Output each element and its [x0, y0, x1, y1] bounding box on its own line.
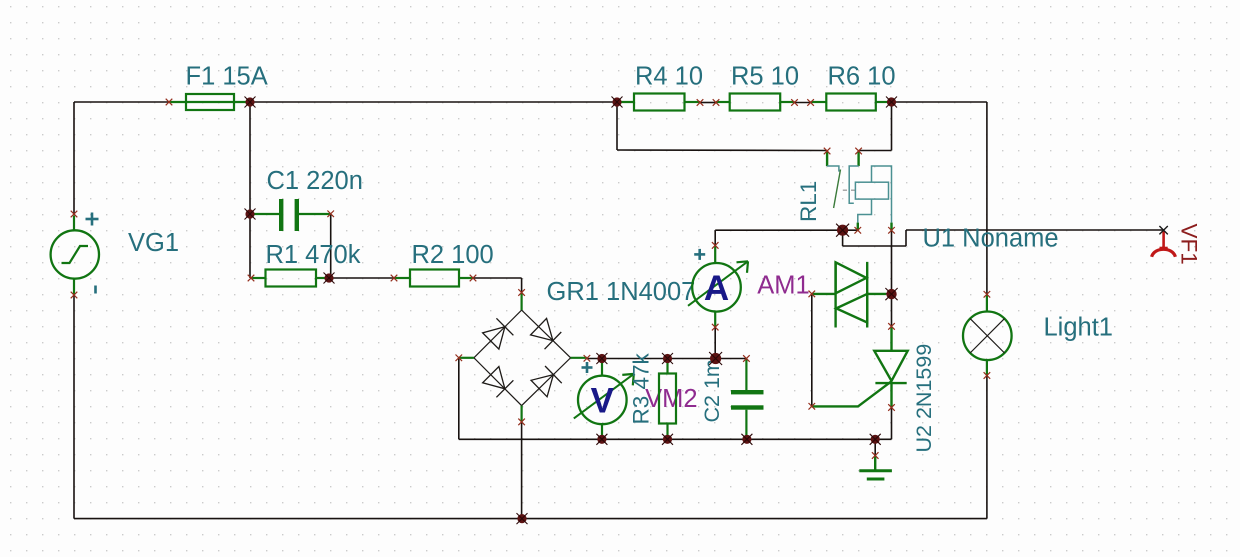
relay RL1 blade: [834, 170, 841, 209]
pin: [71, 292, 78, 299]
wire: [843, 245, 906, 247]
junction: [324, 273, 335, 284]
pin: [807, 99, 814, 106]
svg-text:R1 470k: R1 470k: [266, 241, 361, 269]
pin: [809, 403, 816, 410]
pin: [888, 227, 895, 234]
triac U1: [812, 262, 886, 328]
pin: [71, 211, 78, 218]
relay RL1 link dashes: [843, 189, 856, 191]
svg-text:VG1: VG1: [128, 229, 179, 257]
svg-text:AM1: AM1: [757, 272, 809, 300]
svg-text:A: A: [704, 269, 729, 308]
diode D4 (bottom-right edge): [531, 366, 562, 397]
svg-text:F1 15A: F1 15A: [186, 63, 268, 91]
bridge rectifier GR1: [459, 293, 587, 422]
pin: [888, 404, 895, 411]
junction: [662, 353, 673, 364]
resistor R6: [826, 94, 876, 111]
wire: [986, 376, 988, 519]
capacitor C2: [731, 359, 764, 440]
wire: [891, 408, 893, 440]
junction: [741, 434, 752, 445]
svg-text:V: V: [591, 382, 615, 421]
wire: [473, 277, 522, 279]
wire: [330, 214, 332, 278]
wire: [795, 102, 811, 104]
wire: [74, 518, 987, 520]
svg-text:Light1: Light1: [1044, 314, 1113, 342]
VG1 minus sign: [94, 286, 97, 294]
diode D2 (top-right edge): [530, 318, 561, 349]
wire: [891, 294, 893, 326]
pin: [248, 275, 255, 282]
AM1 plus sign: [694, 249, 705, 260]
wire: [617, 149, 827, 152]
wire: [892, 101, 987, 103]
pin: [391, 275, 398, 282]
AM1 bottom wire: [714, 327, 716, 358]
pin: [855, 227, 862, 234]
ground: [859, 456, 892, 480]
pin: [712, 324, 719, 331]
svg-text:U1 Noname: U1 Noname: [923, 224, 1059, 252]
VF1 pin x: [1159, 226, 1167, 234]
pin: [984, 372, 991, 379]
wire: [859, 150, 892, 152]
resistor R4: [634, 94, 685, 111]
wire: [74, 101, 169, 103]
pin: [712, 242, 719, 249]
junction: [245, 209, 256, 220]
wire: [874, 439, 876, 455]
voltage source VG1: [51, 216, 99, 295]
pin: [743, 355, 750, 362]
ammeter AM1: [688, 261, 748, 311]
wire: [616, 102, 618, 150]
wire: [886, 293, 892, 295]
junction: [612, 97, 623, 108]
wire: [587, 358, 747, 360]
svg-text:R2 100: R2 100: [412, 241, 494, 269]
svg-text:R6 10: R6 10: [828, 63, 896, 91]
wire: [811, 295, 813, 406]
pin: [166, 99, 173, 106]
resistor R2: [410, 270, 459, 287]
svg-text:U2 2N1599: U2 2N1599: [912, 344, 936, 453]
junction: [245, 97, 256, 108]
VM2 bottom lead: [601, 424, 603, 440]
svg-text:C2 1m: C2 1m: [700, 359, 724, 422]
wire: [906, 229, 1164, 231]
pin: [888, 323, 895, 330]
wire: [891, 102, 893, 151]
resistor R1: [266, 270, 317, 287]
resistor R5: [730, 94, 781, 111]
relay RL1 coil pin leads: [858, 223, 892, 231]
pin: [713, 99, 720, 106]
wire: [905, 230, 907, 246]
pin: [855, 148, 862, 155]
pin: [456, 355, 463, 362]
capacitor C1: [250, 199, 331, 231]
wire: [986, 102, 988, 294]
wire: [521, 422, 523, 519]
pin: [584, 355, 591, 362]
thyristor U2: [812, 327, 908, 408]
svg-text:VF1: VF1: [1177, 224, 1202, 265]
junction (U1 node): [885, 288, 897, 300]
wire: [891, 230, 893, 294]
wire: [459, 438, 892, 440]
VG1 plus sign: [86, 213, 99, 226]
junction (relay row): [836, 224, 849, 237]
pin: [872, 452, 879, 459]
pin: [518, 419, 525, 426]
wire: [249, 102, 251, 278]
svg-text:R4 10: R4 10: [635, 63, 703, 91]
wire: [73, 295, 75, 519]
pin: [791, 99, 798, 106]
pin: [824, 148, 831, 155]
diode D3 (left-bottom edge): [482, 366, 513, 397]
pin: [809, 291, 816, 298]
wire: [700, 102, 716, 104]
wire: [842, 230, 844, 246]
junction (AM1/mid row): [709, 352, 722, 365]
pin: [984, 291, 991, 298]
relay RL1 contacts: [827, 166, 859, 203]
svg-text:R3 47k: R3 47k: [629, 352, 654, 424]
VM2 top lead: [601, 359, 603, 377]
pin: [697, 99, 704, 106]
fuse F1: [169, 94, 250, 110]
pin: [327, 211, 334, 218]
junction: [517, 513, 528, 524]
junction: [596, 434, 607, 445]
relay RL1 coil: [855, 166, 891, 223]
wire: [521, 278, 523, 293]
wire: [715, 229, 858, 231]
junction: [870, 434, 881, 445]
junction: [886, 97, 897, 108]
wire: [714, 230, 716, 245]
wire: [250, 101, 617, 103]
pin: [470, 275, 477, 282]
wire: [73, 102, 75, 214]
svg-text:GR1 1N4007: GR1 1N4007: [547, 278, 696, 306]
lamp Light1: [963, 295, 1012, 376]
pin: [518, 289, 525, 296]
AM1 bottom lead: [714, 312, 716, 327]
diode D1 (left-top edge): [482, 318, 513, 349]
resistor R3: [659, 374, 676, 424]
svg-text:C1 220n: C1 220n: [267, 167, 363, 195]
junction: [596, 353, 607, 364]
AM1 top lead: [714, 245, 716, 263]
voltage pin VF1: [1152, 231, 1176, 257]
voltmeter VM2: [574, 374, 634, 424]
junction: [662, 434, 673, 445]
VM2 plus sign: [582, 362, 593, 373]
svg-text:RL1: RL1: [796, 181, 821, 222]
relay RL1 contact leads: [827, 151, 859, 166]
wire: [458, 359, 460, 440]
wire: [329, 277, 394, 279]
svg-text:R5 10: R5 10: [731, 63, 799, 91]
